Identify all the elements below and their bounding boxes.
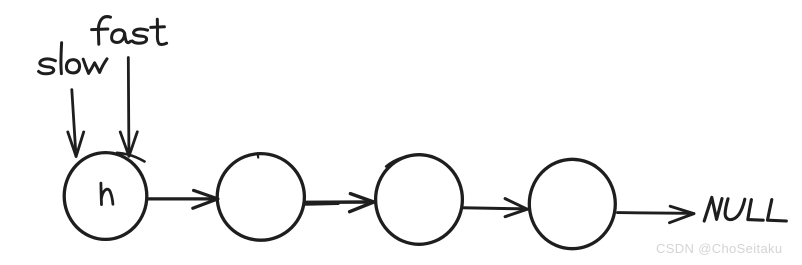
arrow node2 -> node3 (306, 194, 374, 212)
fast pointer arrow (120, 58, 137, 157)
label h inside node 1 (101, 183, 113, 204)
slow pointer arrow (68, 90, 84, 157)
node 4 circle (529, 159, 615, 248)
label "fast" (92, 17, 167, 45)
node 1 circle (h) (64, 153, 147, 240)
label NULL (704, 197, 786, 221)
node 3 circle (376, 155, 463, 245)
arrow node1 -> node2 (148, 190, 218, 208)
arrow node4 -> NULL (618, 206, 694, 223)
label "slow" (39, 43, 107, 74)
CSDN watermark (656, 241, 782, 256)
node 2 circle (217, 154, 304, 241)
arrow node3 -> node4 (463, 199, 528, 217)
